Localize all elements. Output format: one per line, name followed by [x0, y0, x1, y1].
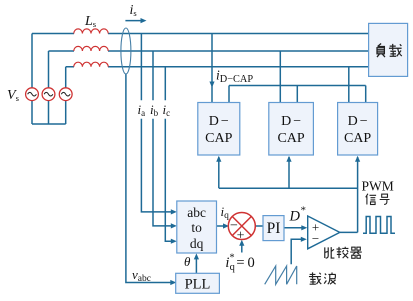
wire: iq*=0 up into summer: [241, 243, 243, 252]
svg-text:PWM: PWM: [362, 178, 394, 193]
arrowhead i_s: [141, 18, 147, 23]
arrowhead carrier into comparator: [301, 237, 307, 242]
svg-text:CAP: CAP: [205, 131, 232, 146]
wire: i_q from abc-dq to summer: [217, 225, 226, 227]
PLL box: [176, 273, 220, 293]
source Vs1: [26, 88, 39, 101]
wire: phase c horizontal: [66, 66, 369, 68]
arrowhead i_D-CAP down: [209, 82, 214, 88]
svg-text:D−: D−: [348, 114, 368, 129]
arrowhead PWM into D-CAP1: [216, 156, 221, 162]
arrowhead theta into abc-dq: [194, 253, 199, 259]
arrowhead i_b into abc-dq: [171, 223, 177, 228]
wire: phase a vertical to source Vs1: [31, 34, 33, 88]
arrowhead i_a into abc-dq: [171, 209, 177, 214]
comparator triangle: [308, 216, 340, 249]
load box (negative-load 负载): [369, 23, 408, 76]
D-CAP box 2: [269, 103, 314, 156]
wire: i_D-CAP tap into D-CAP 1: [211, 34, 213, 103]
wire: D-CAP common bus: [229, 86, 366, 103]
inductor Ls phase a: [74, 29, 108, 34]
source Vs3: [59, 88, 72, 101]
wire: PWM arrow up to D-CAP1: [218, 157, 220, 188]
PWM square wave icon: [363, 217, 395, 234]
svg-text:D−: D−: [281, 114, 301, 129]
wire: i_c tap vertical: [165, 67, 173, 241]
arrowhead D* into comparator: [301, 225, 307, 230]
svg-text:D−: D−: [209, 114, 229, 129]
label 比较器 (comparator): [325, 247, 335, 258]
inductor Ls phase b: [74, 46, 108, 51]
svg-text:CAP: CAP: [277, 131, 304, 146]
wire: PI to comparator (D*): [284, 227, 304, 229]
wire: carrier into comparator minus input: [291, 239, 303, 264]
wire: theta from PLL up to abc-dq: [195, 257, 197, 273]
wire: phase c vertical to source Vs3: [65, 67, 67, 88]
arrowhead v_abc into PLL: [170, 280, 176, 285]
inductor Ls phase c: [74, 62, 108, 67]
wire: phase b vertical to source Vs2: [48, 51, 50, 88]
wire: PWM distribution line: [219, 157, 358, 232]
svg-text:i*q= 0: i*q= 0: [225, 253, 254, 274]
wire: phase a horizontal: [32, 33, 369, 35]
wire: D-CAP 2 left tap from phase b: [279, 51, 281, 103]
summing junction: [228, 213, 255, 240]
label 信号 (signal): [366, 194, 376, 205]
abc to dq box: [177, 201, 217, 253]
arrowhead PWM into D-CAP2: [286, 156, 291, 162]
wire: i_a tap vertical: [141, 34, 173, 212]
D-CAP box 3: [338, 103, 378, 156]
arrowhead iq*=0 into summer: [239, 240, 244, 246]
wire: PWM arrow up to D-CAP2: [288, 157, 290, 188]
svg-text:θ: θ: [184, 254, 191, 269]
arrowhead PWM into D-CAP3: [355, 156, 360, 162]
carrier sawtooth icon: [265, 266, 297, 284]
wire: D-CAP 3 left tap from phase c: [348, 67, 350, 103]
svg-text:to: to: [191, 220, 202, 235]
D-CAP box 1: [198, 103, 240, 156]
svg-text:+: +: [237, 228, 245, 243]
svg-text:CAP: CAP: [344, 131, 371, 146]
current transducer ellipse: [121, 28, 131, 74]
svg-text:dq: dq: [190, 236, 204, 251]
PI box: [263, 216, 284, 241]
label 载波 (carrier): [309, 272, 321, 284]
wire: i_b tap vertical: [153, 51, 173, 226]
svg-text:−: −: [312, 231, 319, 246]
svg-text:abc: abc: [187, 205, 206, 220]
svg-text:PLL: PLL: [185, 276, 211, 292]
arrowhead i_q into summer: [223, 223, 229, 228]
wire: neutral bus below sources: [32, 101, 66, 124]
wire: phase b horizontal: [49, 50, 369, 52]
arrowhead i_c into abc-dq: [171, 239, 177, 244]
wire: v_abc sense line from CT down to PLL: [126, 74, 173, 283]
svg-text:PI: PI: [267, 220, 281, 237]
wire: summer to PI: [255, 225, 263, 227]
source Vs2: [42, 88, 55, 101]
wire: i_s arrow at top: [125, 20, 142, 22]
